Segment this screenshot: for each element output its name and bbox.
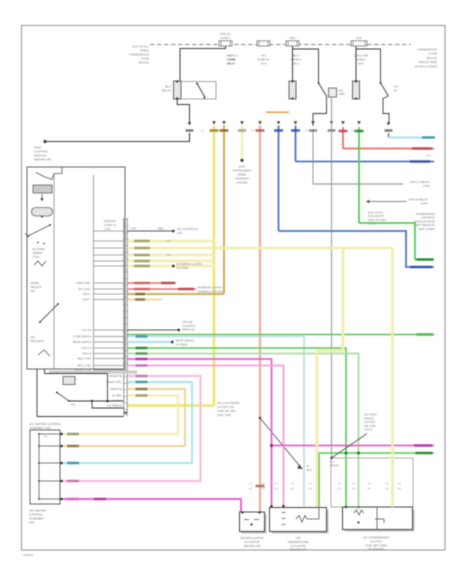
wire: gray G2 long vertical to pressure switch — [331, 97, 333, 458]
aux relay under module — [44, 369, 46, 374]
svg-text:A2: A2 — [275, 486, 279, 490]
relay K1 frame and switch — [181, 82, 216, 100]
wire: A/C on black row — [128, 329, 178, 331]
wire: fuse F1 to relay K1 — [180, 46, 226, 81]
svg-text:A2: A2 — [385, 486, 389, 490]
resistor block beside relay K2 — [329, 88, 337, 97]
pale yellow pin wires — [128, 240, 216, 242]
wire: pale yellow long run to right (row 248) — [215, 247, 393, 249]
svg-text:RED: RED — [158, 227, 164, 231]
compressor outer outline — [331, 458, 413, 507]
svg-text:REC CTRL: REC CTRL — [78, 357, 92, 361]
svg-text:CTRL: CTRL — [423, 184, 431, 188]
svg-text:ONLY): ONLY) — [364, 428, 373, 432]
svg-text:A2: A2 — [338, 486, 342, 490]
svg-text:A2: A2 — [262, 486, 266, 490]
power bus (dashed, hot at all times) — [150, 44, 411, 46]
svg-text:FAN HI: FAN HI — [82, 352, 91, 356]
svg-text:TEMP FB: TEMP FB — [110, 387, 122, 391]
wire: pink mode fb — [63, 376, 201, 481]
svg-text:HI: HI — [394, 89, 397, 93]
recirc motor marks — [244, 519, 249, 521]
svg-text:CTRL: CTRL — [33, 255, 41, 259]
svg-text:C1: C1 — [338, 482, 342, 486]
wire: pale yellow right vertical — [391, 248, 394, 507]
wire: gray G1 down then right — [313, 129, 403, 184]
svg-text:ABS: ABS — [290, 36, 296, 40]
svg-text:(BEHIND I/P): (BEHIND I/P) — [34, 158, 51, 162]
glyph: resistor curve — [34, 261, 46, 266]
temp actuator box — [270, 508, 327, 532]
assembly pin dots — [60, 433, 63, 435]
svg-text:C2: C2 — [351, 129, 355, 133]
svg-text:BLO: BLO — [307, 468, 313, 472]
svg-text:RELAY: RELAY — [227, 62, 236, 66]
svg-text:CTRL: CTRL — [130, 227, 137, 231]
assembly inner bus — [38, 434, 40, 499]
svg-text:BLOCK: BLOCK — [139, 61, 149, 65]
wire: relay K3 switch down to connector — [383, 96, 389, 123]
aux switch — [57, 393, 69, 402]
wire labels on assembly rows — [67, 433, 79, 436]
svg-text:CONN X1: CONN X1 — [104, 223, 117, 227]
svg-text:(I/P): (I/P) — [177, 231, 182, 235]
svg-text:LO REF: LO REF — [112, 399, 122, 403]
svg-text:30 A: 30 A — [358, 62, 364, 66]
svg-text:A2: A2 — [367, 486, 371, 490]
svg-text:A/C: A/C — [330, 460, 335, 464]
connector pin arrows — [212, 121, 216, 124]
wire: green route right — [359, 223, 434, 260]
svg-text:A2: A2 — [309, 486, 313, 490]
compressor ground mark — [375, 518, 384, 520]
svg-text:ENG COMP): ENG COMP) — [419, 227, 435, 231]
compressor box — [343, 507, 413, 530]
fuse F3 — [286, 41, 299, 46]
svg-text:A/C: A/C — [71, 403, 76, 407]
green branch to right edge — [319, 453, 434, 507]
wire jog row 408 — [92, 401, 124, 408]
wire: red pin row 283 — [128, 282, 177, 284]
wire: cyan horizontal top right — [389, 137, 435, 139]
wire: red to right edge — [342, 127, 344, 149]
temp actuator pins — [270, 505, 273, 508]
svg-text:IGN: IGN — [356, 36, 361, 40]
wire: lt blue row 342 with dot — [128, 341, 172, 343]
svg-text:SIG GND: SIG GND — [78, 287, 90, 291]
svg-text:SYSTEM: SYSTEM — [176, 342, 188, 346]
svg-text:LT RR DEFOG: LT RR DEFOG — [73, 335, 92, 339]
fuse F4 — [351, 41, 367, 46]
module box — [27, 167, 125, 369]
svg-text:C1: C1 — [262, 482, 266, 486]
dot and label on row 266 — [172, 265, 175, 268]
recirc actuator pins — [241, 511, 243, 513]
glyph: resistor — [33, 185, 52, 193]
svg-text:TAN: TAN — [166, 253, 171, 257]
svg-text:A2: A2 — [249, 486, 253, 490]
svg-text:RELAY: RELAY — [162, 89, 171, 93]
svg-text:PRESS: PRESS — [330, 463, 339, 467]
wire: yellow vertical — [213, 126, 215, 406]
svg-text:A2: A2 — [291, 486, 295, 490]
wire: short pale yellow with splice — [241, 126, 243, 159]
wire: magenta to recirc actuator — [63, 499, 241, 512]
compressor shadow — [345, 510, 415, 532]
wire: blue 2 horizontal to right edge — [296, 161, 435, 163]
module inner divider — [93, 175, 95, 369]
svg-text:C1: C1 — [398, 482, 402, 486]
svg-text:PWR GND: PWR GND — [76, 281, 90, 285]
recirc actuator shadow — [242, 514, 267, 534]
module pin row labels (upper) — [94, 230, 124, 232]
svg-text:(C60, C69): (C60, C69) — [217, 413, 231, 417]
wire: salmon vertical (blower feed) — [259, 126, 261, 513]
relay K1 coil — [174, 81, 182, 99]
A/C control assembly box — [30, 430, 60, 504]
pressure switch diagonal — [332, 434, 368, 459]
wire: tan temp fb — [63, 389, 185, 446]
svg-text:FUSE 1: FUSE 1 — [220, 36, 231, 40]
wire: pale green row 353 to compressor — [128, 354, 359, 507]
glyph: internal switch — [28, 225, 50, 236]
svg-text:C1: C1 — [249, 482, 253, 486]
svg-text:CTRL: CTRL — [421, 201, 429, 205]
svg-text:SYSTEM: SYSTEM — [177, 266, 189, 270]
svg-text:C1: C1 — [385, 482, 389, 486]
relay K2 switch — [319, 83, 327, 96]
wire: A/C request (black) — [128, 230, 173, 232]
wire: pale yellow branch via jog — [317, 248, 343, 507]
svg-text:TEMP CTRL: TEMP CTRL — [106, 380, 122, 384]
relay K2 coil — [289, 81, 296, 99]
svg-text:C1: C1 — [367, 482, 371, 486]
wire to strip row 401 — [69, 400, 124, 402]
compressor inner divider — [376, 507, 378, 530]
wire: blue vertical 1 — [278, 126, 280, 232]
svg-text:IGN 3: IGN 3 — [83, 292, 91, 296]
svg-text:REQUEST: REQUEST — [31, 339, 45, 343]
gold wire label — [135, 293, 145, 296]
wire: yellow horizontal to module pin — [128, 404, 215, 406]
glyph marks lower — [38, 350, 50, 356]
glyph: mode switch — [36, 173, 54, 180]
wire: blue vertical 2 — [295, 126, 297, 162]
compressor clutch coil — [354, 510, 364, 515]
svg-text:MODULE: MODULE — [182, 328, 194, 332]
svg-text:OF ENGINE): OF ENGINE) — [368, 547, 385, 551]
temp actuator resistor — [296, 516, 307, 523]
wire: feed to relay K2 switch — [293, 49, 319, 83]
glyph: switch lower — [40, 304, 58, 322]
svg-text:CTRL: CTRL — [104, 227, 111, 231]
relay K3 switch — [381, 83, 389, 96]
svg-text:ASSEMBLY (I/P): ASSEMBLY (I/P) — [29, 426, 51, 430]
svg-text:GRY: GRY — [166, 239, 172, 243]
svg-text:SW: SW — [31, 289, 36, 293]
svg-text:C1: C1 — [201, 129, 205, 133]
fuse F2 — [257, 41, 270, 46]
wire: relay K1 output down-left to module — [177, 99, 189, 123]
svg-text:OF ENG COMP): OF ENG COMP) — [415, 64, 437, 68]
svg-text:(BEHIND I/P): (BEHIND I/P) — [290, 548, 307, 552]
temp actuator connector dashes — [282, 512, 286, 514]
wire: green row 348 to compressor — [128, 348, 347, 507]
svg-text:(I/P): (I/P) — [29, 521, 34, 525]
svg-text:25 A: 25 A — [293, 62, 299, 66]
svg-text:BATT: BATT — [83, 298, 90, 302]
svg-text:(BEHIND I/P): (BEHIND I/P) — [244, 544, 261, 548]
tan short pin row 300 — [128, 299, 163, 301]
module inner wall — [53, 174, 55, 370]
wire: fuse F4 to relay K3 — [355, 46, 357, 81]
svg-text:C2: C2 — [251, 129, 255, 133]
fuse F1 HTR A/C — [219, 41, 232, 46]
module pin strip — [123, 218, 125, 416]
svg-text:A2: A2 — [398, 486, 402, 490]
recirc actuator box — [240, 512, 265, 532]
compressor pins — [345, 506, 348, 509]
svg-text:DIMMING SYSTEM: DIMMING SYSTEM — [198, 289, 224, 293]
svg-text:CMP: CMP — [339, 92, 345, 96]
wire: cyan row 336 to temp actuator — [128, 337, 305, 507]
relay K3 coil — [353, 81, 360, 99]
svg-text:C1: C1 — [352, 482, 356, 486]
svg-text:REAR DEFOG: REAR DEFOG — [73, 340, 92, 344]
glyph small marks — [37, 242, 39, 244]
svg-text:A/C PRESS: A/C PRESS — [107, 404, 122, 408]
svg-text:A/C ON: A/C ON — [82, 328, 92, 332]
svg-text:REC CTRL: REC CTRL — [78, 364, 92, 368]
temp actuator shadow — [272, 510, 329, 534]
wire: blue 1 route to right edge — [279, 231, 435, 267]
svg-text:MODE FB: MODE FB — [109, 374, 121, 378]
svg-text:A/C: A/C — [427, 154, 432, 158]
svg-text:C1: C1 — [309, 482, 313, 486]
svg-text:(INLINE): (INLINE) — [236, 181, 247, 185]
orange wire to relay K2 coil — [266, 111, 289, 113]
svg-text:C1: C1 — [305, 129, 309, 133]
magenta branch to right edge — [272, 445, 435, 447]
wire: fuse F3 to relay K2 — [292, 46, 294, 81]
wire: bright green long row 335->right edge — [128, 334, 418, 336]
strip bottom arrow — [124, 412, 128, 415]
wire: magenta row 365 — [128, 366, 284, 505]
glyph: arrow down — [41, 194, 43, 199]
wire: red pin row 289 — [128, 288, 197, 290]
svg-text:104862: 104862 — [23, 553, 33, 557]
wire: pale yellow 5v ref — [63, 396, 178, 435]
wire: magenta row 359 — [128, 359, 272, 505]
svg-text:5V REF: 5V REF — [112, 394, 122, 398]
standalone signal wire with arrow — [369, 201, 407, 203]
svg-text:C1: C1 — [291, 482, 295, 486]
module box lower shadow band — [49, 371, 137, 374]
svg-text:10 A: 10 A — [261, 62, 267, 66]
svg-text:5V: 5V — [44, 434, 47, 438]
glyph: coil oval — [32, 208, 53, 217]
wire from module left down — [37, 369, 124, 417]
svg-text:A2: A2 — [352, 486, 356, 490]
blower resistor switch diagonal — [260, 418, 301, 468]
wire: green vertical from connector — [358, 127, 360, 223]
wire: gold vertical — [223, 126, 225, 295]
svg-text:FAN LO: FAN LO — [82, 346, 93, 350]
wire label dashes on pale yellow rows — [134, 240, 150, 243]
wire: feed to relay K3 switch — [356, 49, 381, 83]
wire: relay K2 switch down — [313, 96, 327, 126]
svg-text:C1: C1 — [275, 482, 279, 486]
wire: cyan temp ctrl — [63, 382, 192, 463]
